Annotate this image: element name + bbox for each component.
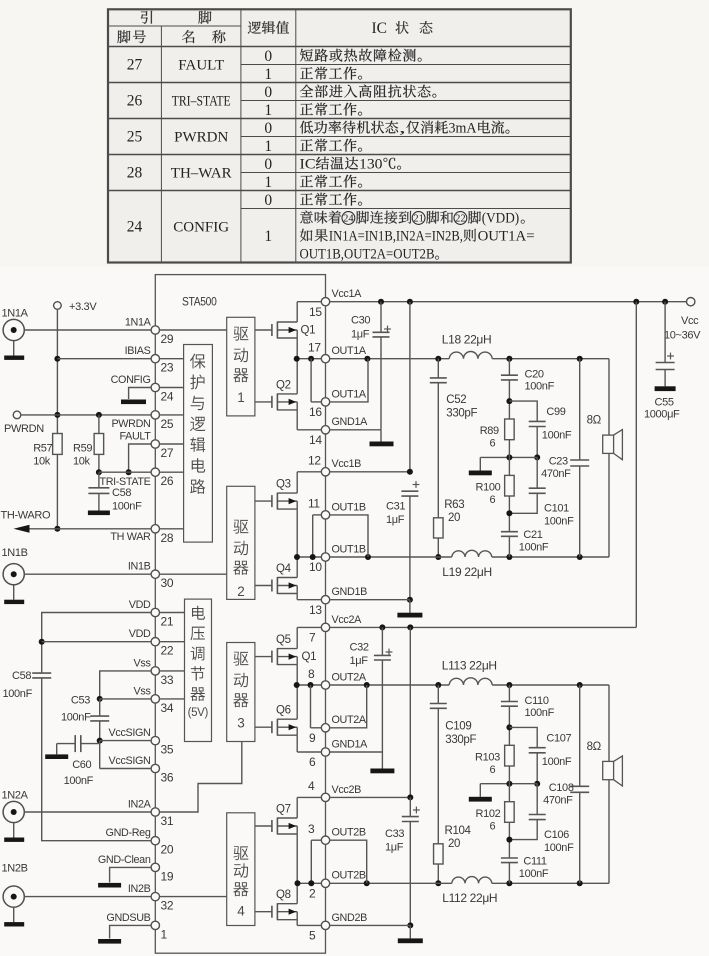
svg-text:FAULT: FAULT — [178, 58, 224, 74]
svg-text:34: 34 — [161, 701, 174, 715]
svg-text:OUT1A: OUT1A — [332, 345, 367, 357]
IC right pins with numbers and names — [308, 288, 368, 943]
svg-text:25: 25 — [161, 417, 174, 431]
svg-text:R100: R100 — [476, 482, 501, 494]
wire GNDSUB pin1 — [98, 925, 151, 943]
svg-text:1: 1 — [264, 138, 272, 155]
wire VccSIGN tie 35-36 — [99, 741, 101, 769]
svg-text:GNDSUB: GNDSUB — [106, 912, 150, 924]
svg-text:330pF: 330pF — [445, 734, 476, 746]
wire GND2B pin5 — [330, 925, 423, 943]
svg-text:100nF: 100nF — [542, 430, 572, 442]
svg-text:OUT1B: OUT1B — [332, 543, 366, 555]
capacitor C55 — [644, 302, 680, 421]
svg-text:C106: C106 — [544, 829, 569, 841]
svg-text:100nF: 100nF — [64, 775, 94, 787]
svg-text:32: 32 — [161, 899, 174, 913]
wire GND1A pin6 — [330, 752, 395, 773]
wire Vcc2B pin4 — [330, 794, 414, 800]
svg-text:GND1A: GND1A — [332, 416, 369, 428]
svg-text:1: 1 — [264, 228, 272, 245]
svg-text:+3.3V: +3.3V — [69, 301, 97, 313]
svg-text:VccSIGN: VccSIGN — [109, 727, 151, 739]
svg-text:22: 22 — [161, 644, 174, 658]
capacitor C30 — [351, 302, 391, 430]
capacitor C109 — [430, 685, 477, 844]
svg-text:8Ω: 8Ω — [587, 741, 602, 753]
svg-text:C109: C109 — [445, 721, 471, 733]
svg-text:Vcc2B: Vcc2B — [332, 784, 362, 796]
svg-text:C110: C110 — [525, 695, 549, 707]
svg-text:4: 4 — [308, 779, 315, 793]
resistor R104 — [434, 825, 472, 864]
svg-text:IBIAS: IBIAS — [125, 345, 151, 357]
resistor R102 — [476, 766, 515, 832]
transistor Q8 — [255, 883, 297, 925]
resistor R63 — [434, 499, 465, 538]
inductor L19 — [442, 550, 492, 579]
svg-text:16: 16 — [309, 405, 322, 419]
table state texts — [300, 49, 510, 206]
svg-text:C20: C20 — [525, 369, 544, 381]
svg-text:Q6: Q6 — [276, 705, 291, 717]
wire 1N1B to pin30 — [24, 573, 151, 575]
wire IN2B pin32 to driver4 — [159, 896, 226, 898]
wire VccSIGN pin35 — [100, 740, 152, 742]
svg-text:IN1B: IN1B — [128, 561, 151, 573]
block voltage regulator 5V — [185, 599, 212, 741]
IC left pins with numbers and names — [98, 316, 174, 941]
svg-text:OUT1A=: OUT1A= — [478, 229, 535, 245]
svg-text:Q1: Q1 — [302, 651, 317, 663]
svg-text:100nF: 100nF — [112, 501, 142, 513]
svg-text:C53: C53 — [71, 695, 90, 707]
resistor R57 — [33, 434, 62, 468]
wire VDD pin22 left — [42, 641, 152, 643]
svg-text:20: 20 — [161, 843, 174, 857]
terminal +3.3V — [54, 301, 98, 313]
svg-text:13: 13 — [309, 603, 322, 617]
wire IN2A pin31 staircase to driver3 — [159, 742, 242, 813]
svg-text:CONFIG: CONFIG — [111, 374, 151, 386]
wire C58 to GND-Reg pin20 — [42, 678, 152, 841]
svg-text:10k: 10k — [33, 456, 51, 468]
capacitor C23 — [541, 359, 589, 557]
svg-text:C108: C108 — [549, 782, 574, 794]
svg-text:C52: C52 — [446, 394, 466, 406]
svg-text:GND-Reg: GND-Reg — [106, 827, 151, 839]
capacitor C53 — [61, 695, 109, 744]
capacitor C21 — [501, 496, 549, 557]
svg-text:PWRDN: PWRDN — [111, 418, 150, 430]
transistor Q3 — [255, 472, 297, 557]
svg-text:1N1B: 1N1B — [2, 547, 28, 559]
svg-text:TRI–STATE: TRI–STATE — [172, 94, 231, 110]
svg-text:OUT2B: OUT2B — [332, 870, 366, 882]
svg-text:1: 1 — [264, 102, 272, 119]
wire VDD pin21 left — [39, 613, 152, 674]
svg-text:8Ω: 8Ω — [587, 415, 602, 427]
wire L112 to node — [492, 880, 609, 886]
table CONFIG state text — [300, 211, 535, 263]
svg-text:Vss: Vss — [134, 657, 152, 669]
table grid — [108, 9, 571, 262]
svg-text:1μF: 1μF — [351, 329, 370, 341]
wire OUT2B pin2 — [330, 880, 452, 886]
wire OUT2B jog pin3 — [330, 840, 367, 883]
svg-text:(VDD): (VDD) — [482, 211, 520, 227]
svg-text:20: 20 — [448, 838, 460, 850]
svg-text:GND-Clean: GND-Clean — [98, 854, 151, 866]
svg-text:3: 3 — [308, 822, 315, 836]
svg-text:15: 15 — [309, 305, 322, 319]
capacitor C60 — [45, 735, 99, 787]
svg-text:26: 26 — [161, 474, 174, 488]
svg-text:0: 0 — [264, 84, 272, 101]
svg-text:TH–WAR: TH–WAR — [171, 166, 232, 182]
svg-text:26: 26 — [127, 93, 143, 110]
input connector 1N2B — [2, 863, 28, 927]
svg-text:TH-WARO: TH-WARO — [1, 510, 51, 522]
svg-text:17: 17 — [308, 341, 321, 355]
capacitor C31 — [386, 481, 419, 603]
svg-text:33: 33 — [161, 673, 174, 687]
wire R57 to TH-WARO net — [54, 454, 60, 531]
wire node R103-R102 ground — [469, 781, 537, 802]
svg-text:VDD: VDD — [129, 628, 151, 640]
wire Vcc1A to Vcc2A rail — [635, 302, 637, 628]
wire OUT2A jog pin9 — [330, 685, 367, 728]
svg-text:VDD: VDD — [129, 599, 151, 611]
transistor Q7 — [255, 797, 297, 883]
svg-text:100nF: 100nF — [525, 381, 555, 393]
wire L19 to node — [492, 554, 609, 560]
svg-text:8: 8 — [308, 667, 315, 681]
capacitor C106 — [509, 784, 574, 854]
svg-text:C60: C60 — [72, 759, 91, 771]
svg-text:Vcc1A: Vcc1A — [332, 288, 363, 300]
svg-text:R59: R59 — [73, 443, 92, 455]
input connector 1N1A — [2, 308, 29, 360]
terminal PWRDN — [4, 411, 44, 435]
svg-text:100nF: 100nF — [519, 868, 549, 880]
svg-text:L18 22μH: L18 22μH — [442, 333, 491, 347]
wire IN1B pin30 to driver2 — [159, 573, 226, 575]
svg-text:PWRDN: PWRDN — [4, 423, 44, 435]
svg-text:36: 36 — [161, 771, 174, 785]
svg-text:IC: IC — [300, 157, 316, 173]
svg-text:24: 24 — [343, 214, 354, 225]
stray Q1 label near Q5 — [302, 651, 317, 663]
svg-text:R104: R104 — [445, 825, 472, 837]
svg-text:R57: R57 — [33, 443, 52, 455]
svg-text:C23: C23 — [549, 456, 568, 468]
svg-text:35: 35 — [161, 743, 174, 757]
wire OUT1A jog pin16 — [330, 359, 369, 402]
svg-text:OUT2A: OUT2A — [332, 671, 367, 683]
IC STA500 outline — [155, 275, 325, 954]
svg-text:C55: C55 — [655, 397, 674, 409]
svg-text:1μF: 1μF — [350, 655, 369, 667]
svg-text:C58: C58 — [112, 487, 131, 499]
wire TRI-STATE — [99, 471, 151, 473]
svg-text:C107: C107 — [546, 732, 571, 744]
svg-text:IN2B: IN2B — [128, 883, 151, 895]
capacitor C32 — [350, 627, 393, 752]
svg-text:100nF: 100nF — [519, 542, 549, 554]
wire OUT2A pin8 — [330, 682, 450, 688]
svg-text:100nF: 100nF — [544, 516, 574, 528]
resistor R59 — [73, 434, 104, 468]
svg-text:24: 24 — [161, 390, 174, 404]
inductor L112 — [442, 877, 497, 905]
svg-text:470nF: 470nF — [543, 794, 573, 806]
svg-text:6: 6 — [490, 494, 496, 506]
wire GND-Clean pin19 — [98, 867, 151, 887]
svg-text:100nF: 100nF — [525, 707, 555, 719]
svg-text:L113 22μH: L113 22μH — [442, 659, 497, 673]
table header — [117, 11, 432, 43]
wire L113 to node — [492, 682, 609, 688]
wire 1N1A to pin29 — [24, 329, 151, 331]
IC label STA500 — [182, 295, 217, 309]
svg-text:100nF: 100nF — [544, 842, 574, 854]
svg-text:R89: R89 — [480, 425, 499, 437]
table logic values — [264, 48, 272, 245]
svg-text:1N2A: 1N2A — [2, 790, 29, 802]
svg-text:6: 6 — [309, 755, 316, 769]
wire Vcc1B pin12 — [330, 469, 413, 475]
svg-text:9: 9 — [309, 731, 316, 745]
svg-text:Q3: Q3 — [276, 479, 291, 491]
svg-text:1: 1 — [237, 390, 244, 405]
svg-text:Vcc1B: Vcc1B — [332, 458, 362, 470]
resistor R103 — [475, 745, 514, 776]
svg-text:1: 1 — [264, 174, 272, 191]
block driver 1 — [227, 317, 255, 416]
wire R59 top — [98, 415, 100, 434]
terminal Vcc — [664, 298, 701, 342]
svg-text:27: 27 — [127, 57, 143, 74]
svg-text:0: 0 — [264, 48, 272, 65]
svg-text:OUT1B: OUT1B — [332, 501, 366, 513]
transistor Q1 — [255, 302, 315, 359]
transistor Q2 — [255, 359, 297, 430]
svg-text:27: 27 — [161, 446, 174, 460]
capacitor C99 — [509, 401, 571, 460]
output TH-WARO arrow — [1, 510, 152, 533]
wire GND1B pin13 — [330, 600, 423, 618]
capacitor C107 — [509, 727, 571, 786]
svg-text:R63: R63 — [444, 499, 464, 511]
wires VDD Vss to regulator block — [159, 613, 184, 699]
svg-text:OUT1B,OUT2A=OUT2B: OUT1B,OUT2A=OUT2B — [300, 247, 435, 263]
svg-text:23: 23 — [161, 361, 174, 375]
svg-text:C111: C111 — [523, 855, 546, 867]
svg-text:3: 3 — [237, 716, 244, 731]
svg-text:20: 20 — [448, 512, 460, 524]
svg-text:5: 5 — [309, 929, 316, 943]
svg-text:C101: C101 — [544, 503, 569, 515]
svg-text:22: 22 — [455, 214, 466, 225]
wire FAULT to TRI-STATE net — [126, 444, 152, 475]
svg-text:Vss: Vss — [134, 685, 152, 697]
svg-text:GND2B: GND2B — [332, 912, 368, 924]
svg-text:100nF: 100nF — [61, 712, 91, 724]
capacitor C20 — [501, 359, 555, 419]
svg-text:C32: C32 — [350, 642, 369, 654]
svg-text:100nF: 100nF — [542, 756, 572, 768]
wires left pins to protection block — [159, 359, 183, 529]
capacitor C33 — [385, 797, 420, 928]
svg-text:6: 6 — [490, 820, 496, 832]
svg-text:1N1A: 1N1A — [2, 308, 29, 320]
wire R63 bottom — [435, 538, 441, 560]
svg-text:10: 10 — [309, 560, 322, 574]
svg-text:2: 2 — [237, 584, 244, 599]
svg-text:0: 0 — [264, 156, 272, 173]
svg-text:31: 31 — [161, 814, 174, 828]
capacitor C58 tri-state — [88, 472, 142, 515]
inductor L113 — [442, 659, 497, 686]
svg-text:30: 30 — [161, 576, 174, 590]
resistor R100 — [476, 440, 515, 506]
svg-text:OUT1A: OUT1A — [332, 388, 367, 400]
svg-text:IN2A: IN2A — [128, 798, 152, 810]
speaker 8ohm channel2 — [587, 685, 623, 883]
wire PWRDN to pin25 — [21, 412, 152, 418]
block protection-logic circuit — [184, 345, 213, 543]
wire OUT1B pin10 — [330, 554, 452, 560]
wire Vss pin34 — [100, 698, 152, 700]
wire OUT1B jog pin11 — [330, 515, 369, 557]
svg-text:470nF: 470nF — [541, 468, 571, 480]
capacitor C110 — [501, 685, 555, 745]
svg-text:Q8: Q8 — [276, 889, 291, 901]
svg-text:VccSIGN: VccSIGN — [109, 755, 151, 767]
svg-text:28: 28 — [161, 531, 174, 545]
capacitor C58 vdd — [3, 670, 52, 700]
input connector 1N2A — [2, 790, 29, 842]
svg-text:,: , — [399, 121, 406, 137]
svg-text:0: 0 — [264, 192, 272, 209]
transistor Q6 — [255, 685, 297, 752]
wire 1N1A pin29 to driver1 — [159, 329, 226, 331]
wire Vcc2A rail — [330, 624, 637, 630]
svg-text:4: 4 — [237, 904, 245, 919]
svg-text:28: 28 — [127, 165, 143, 182]
block driver 2 — [227, 486, 255, 599]
svg-text:Q4: Q4 — [276, 563, 292, 575]
svg-text:C31: C31 — [386, 501, 405, 513]
svg-text:24: 24 — [127, 219, 143, 236]
svg-text:6: 6 — [490, 764, 496, 776]
svg-text:Vcc2A: Vcc2A — [332, 614, 363, 626]
svg-text:C58: C58 — [12, 670, 31, 682]
block driver 4 — [227, 813, 255, 926]
svg-text:Q2: Q2 — [276, 379, 291, 391]
svg-text:330pF: 330pF — [446, 408, 477, 420]
svg-text:(5V): (5V) — [188, 707, 209, 719]
inductor L18 — [442, 333, 492, 359]
svg-text:25: 25 — [127, 129, 143, 146]
svg-text:GND1B: GND1B — [332, 586, 368, 598]
svg-text:12: 12 — [308, 454, 321, 468]
svg-text:29: 29 — [161, 332, 174, 346]
svg-text:OUT2A: OUT2A — [332, 714, 367, 726]
svg-text:19: 19 — [161, 869, 174, 883]
svg-text:1μF: 1μF — [386, 514, 405, 526]
svg-text:OUT2B: OUT2B — [332, 827, 366, 839]
svg-text:FAULT: FAULT — [119, 430, 151, 442]
transistor Q5 — [255, 627, 297, 685]
wire L18 to node — [492, 356, 609, 362]
svg-text:GND1A: GND1A — [332, 738, 369, 750]
svg-text:PWRDN: PWRDN — [174, 130, 228, 146]
svg-text:Q7: Q7 — [276, 804, 291, 816]
block driver 3 — [227, 643, 255, 742]
wire CONFIG ground — [121, 388, 151, 405]
wire VccSIGN pin36 — [100, 768, 152, 770]
internal pin connection wires — [294, 302, 322, 926]
wire GND1A pin14 — [330, 430, 394, 447]
wire Vcc tie 1A-1B — [409, 302, 411, 472]
svg-text:21: 21 — [413, 214, 424, 225]
svg-text:C99: C99 — [546, 406, 565, 418]
wire 1N2A to pin31 — [24, 811, 151, 813]
svg-text:2: 2 — [309, 887, 316, 901]
wire +3.3V rail down — [54, 309, 60, 433]
svg-text:Q1: Q1 — [301, 325, 316, 337]
transistor Q4 — [255, 557, 297, 600]
svg-text:L19 22μH: L19 22μH — [442, 565, 491, 579]
wire R59 bottom to TRI-STATE net — [96, 454, 102, 475]
table pin numbers and names — [127, 57, 232, 236]
wire Vss pin33 jog — [97, 671, 152, 702]
svg-text:14: 14 — [309, 433, 322, 447]
svg-text:C21: C21 — [523, 529, 542, 541]
svg-text:IC: IC — [372, 20, 388, 37]
svg-text:130: 130 — [359, 157, 383, 173]
svg-text:100nF: 100nF — [3, 688, 33, 700]
wire node R89-R100 ground — [469, 454, 537, 475]
svg-text:10~36V: 10~36V — [664, 330, 701, 342]
capacitor C101 — [509, 457, 574, 527]
svg-text:TH WAR: TH WAR — [110, 531, 151, 543]
svg-text:21: 21 — [161, 615, 174, 629]
capacitor C52 — [430, 359, 478, 518]
wire R104 bottom — [435, 864, 441, 886]
svg-text:10k: 10k — [73, 456, 91, 468]
wire Vcc tie 2A-2B — [409, 627, 411, 797]
svg-text:C30: C30 — [351, 315, 370, 327]
svg-text:R102: R102 — [476, 808, 501, 820]
svg-text:6: 6 — [490, 438, 496, 450]
svg-text:R103: R103 — [475, 751, 500, 763]
svg-text:STA500: STA500 — [182, 295, 217, 309]
wire IBIAS — [57, 358, 151, 360]
svg-text:L112 22μH: L112 22μH — [442, 891, 497, 905]
svg-text:1: 1 — [264, 66, 272, 83]
svg-text:1N2B: 1N2B — [2, 863, 28, 875]
svg-text:1000μF: 1000μF — [644, 409, 680, 421]
svg-text:Vcc: Vcc — [681, 315, 699, 327]
svg-text:1N1A: 1N1A — [125, 316, 152, 328]
svg-text:C33: C33 — [385, 828, 404, 840]
capacitor C111 — [501, 822, 549, 883]
svg-text:0: 0 — [264, 120, 272, 137]
svg-text:Q5: Q5 — [276, 634, 291, 646]
